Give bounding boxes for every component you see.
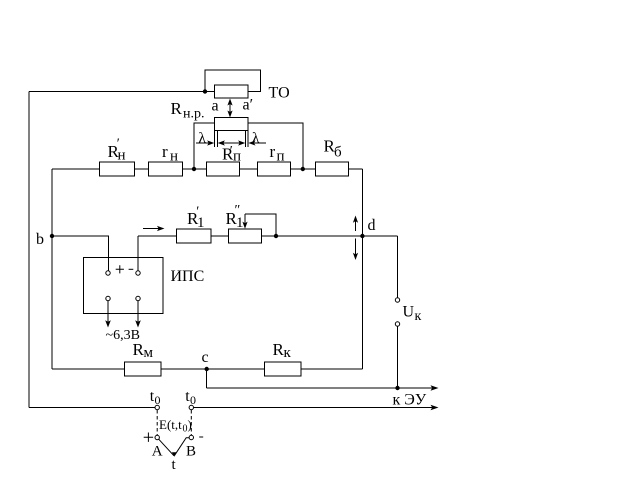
svg-text:E(t,t: E(t,t (159, 417, 182, 432)
svg-text:к ЭУ: к ЭУ (393, 392, 427, 409)
svg-text:R: R (171, 99, 183, 118)
svg-text:b: b (36, 231, 44, 248)
svg-text:U: U (403, 304, 415, 321)
svg-text:): ) (188, 417, 192, 432)
svg-text:1: 1 (197, 215, 205, 231)
svg-text:н.р.: н.р. (183, 107, 205, 122)
svg-text:r: r (162, 142, 168, 161)
svg-text:c: c (202, 349, 209, 366)
svg-text:А: А (152, 444, 163, 460)
svg-text:λ: λ (252, 131, 260, 147)
svg-text:б: б (334, 145, 342, 161)
svg-text:d: d (368, 217, 376, 234)
svg-text:ТО: ТО (269, 85, 290, 102)
svg-text:a: a (212, 98, 219, 115)
svg-text:ИПС: ИПС (171, 268, 205, 285)
svg-text:к: к (284, 345, 292, 361)
svg-text:м: м (144, 345, 154, 361)
svg-text:к: к (415, 309, 422, 324)
svg-text:0: 0 (155, 393, 161, 407)
svg-text:a′: a′ (243, 97, 254, 114)
svg-text:п: п (233, 149, 241, 165)
svg-text:н: н (170, 149, 178, 165)
svg-text:п: п (277, 149, 285, 165)
svg-text:r: r (270, 142, 276, 161)
svg-text:0: 0 (190, 393, 196, 407)
svg-text:В: В (186, 444, 196, 460)
svg-text:н: н (118, 148, 126, 164)
svg-text:λ: λ (199, 131, 207, 147)
svg-text:1: 1 (236, 215, 244, 231)
svg-text:t: t (172, 457, 177, 473)
